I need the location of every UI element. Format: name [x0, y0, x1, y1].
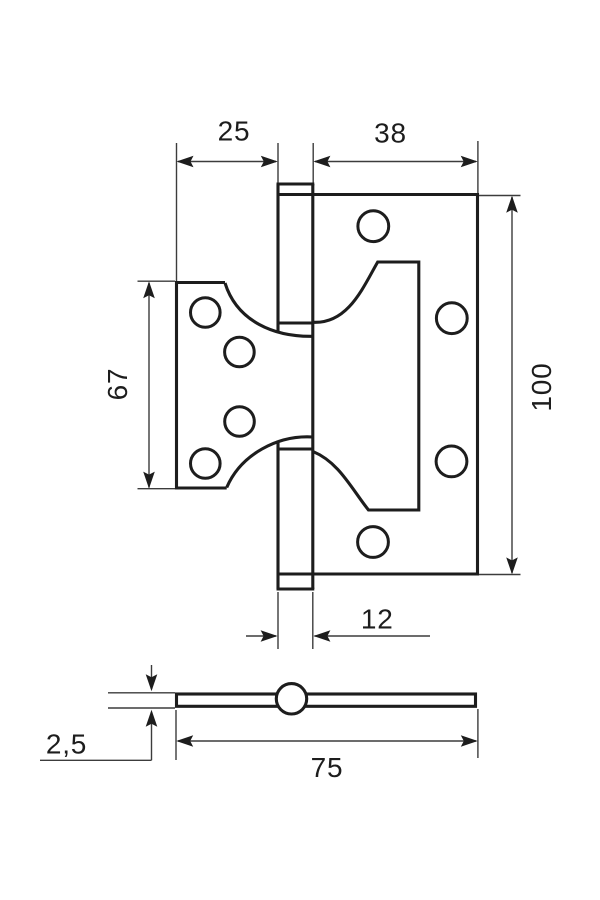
dim line 38 — [315, 161, 476, 163]
screw hole left leaf 1 — [191, 298, 221, 328]
screw hole right leaf 3 — [436, 446, 467, 477]
ext line 67 bottom — [138, 488, 176, 490]
side view knuckle circle — [276, 684, 306, 714]
arrowhead 12 left — [261, 630, 278, 642]
leader 2,5 upper — [151, 665, 153, 689]
arrowhead 67 top — [143, 281, 155, 298]
arrowhead 75 right — [461, 735, 478, 747]
ext line 12 left — [277, 592, 279, 649]
arrowhead 12 right — [313, 630, 330, 642]
arrowhead 2,5 down — [146, 674, 158, 691]
ext line pin left top — [277, 143, 279, 183]
screw hole left leaf 3 — [225, 407, 255, 437]
left leaf top S-curve — [225, 283, 313, 336]
screw hole left leaf 2 — [225, 337, 255, 367]
arrowhead 75 left — [176, 735, 193, 747]
ext line 2,5 top — [108, 692, 175, 694]
right leaf inner cutout — [313, 262, 419, 510]
arrowhead 2,5 up — [146, 710, 158, 727]
svg-text:100: 100 — [526, 362, 557, 411]
arrowhead 100 top — [506, 196, 518, 213]
arrowhead 38 left — [313, 156, 330, 168]
dim line 67 — [148, 283, 150, 488]
ext line 38 right — [477, 141, 479, 193]
svg-text:38: 38 — [374, 118, 407, 149]
side view bar — [177, 694, 476, 706]
screw hole right leaf 1 — [358, 211, 389, 242]
ext line 2,5 bottom — [108, 707, 175, 709]
arrowhead 67 bottom — [143, 472, 155, 489]
svg-text:2,5: 2,5 — [46, 729, 87, 760]
screw hole right leaf 4 — [358, 527, 389, 558]
svg-text:67: 67 — [102, 368, 133, 401]
dim line 12 left tail — [246, 635, 276, 637]
pin left edge lower — [276, 441, 279, 590]
ext line pin right top — [312, 143, 314, 183]
arrowhead 25 right — [261, 156, 278, 168]
screw hole right leaf 2 — [436, 303, 467, 334]
ext line 75 left — [175, 710, 177, 760]
arrowhead 38 right — [461, 156, 478, 168]
svg-text:75: 75 — [311, 752, 344, 783]
pin right edge — [311, 184, 314, 589]
dim line 100 — [511, 197, 513, 573]
pin bottom cap — [277, 587, 315, 590]
pin top cap — [277, 182, 315, 185]
dim line 25 — [178, 161, 276, 163]
ext line 67 top — [138, 280, 176, 282]
left leaf outline — [177, 283, 227, 489]
arrowhead 100 bottom — [506, 557, 518, 574]
ext line 25 left — [176, 143, 178, 281]
pin knuckle division upper — [278, 321, 313, 324]
right leaf outline — [277, 195, 478, 575]
arrowhead 25 left — [177, 156, 194, 168]
svg-text:12: 12 — [361, 604, 394, 635]
left leaf bottom S-curve — [227, 437, 313, 488]
ext line 100 bottom — [479, 574, 521, 576]
screw hole left leaf 4 — [191, 449, 221, 479]
ext line 75 right — [477, 709, 479, 758]
ext line 12 right — [312, 592, 314, 649]
dim line 12 right tail — [315, 635, 431, 637]
pin knuckle division lower — [278, 447, 313, 450]
ext line 100 top — [479, 195, 521, 197]
dim line 75 — [178, 740, 476, 742]
pin left edge upper — [276, 184, 279, 333]
leader 2,5 lower — [40, 712, 152, 760]
svg-text:25: 25 — [218, 116, 251, 147]
